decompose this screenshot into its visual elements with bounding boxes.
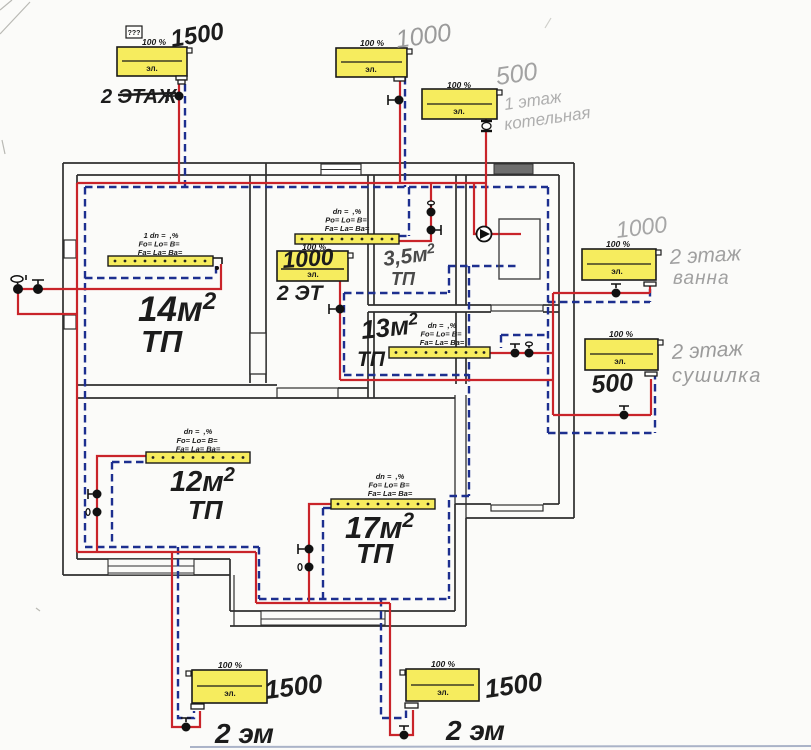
wall bottom-right-section inner segment right [543, 503, 559, 505]
door threshold H1 [491, 305, 543, 311]
wire supply radiator R6 drop [172, 552, 200, 727]
valve on B8 drop [329, 304, 345, 314]
outer wall right inner line [558, 175, 560, 504]
wire return boiler branch [448, 265, 520, 267]
valves on M2 riser [427, 201, 442, 235]
svg-text:dn = ,%: dn = ,% [184, 427, 213, 436]
step wall left-bottom [229, 559, 231, 611]
wire supply bottom-left horizontal [77, 551, 256, 553]
svg-text:ТП: ТП [357, 348, 386, 371]
svg-text:500: 500 [494, 57, 539, 91]
interior wall V1 line a [249, 175, 251, 383]
interior wall H1 line b [368, 311, 491, 313]
wire return main horizontal [85, 186, 548, 188]
wire zone drop to 13m [343, 293, 345, 375]
outer wall left outer line [62, 163, 64, 575]
wire return left drop [84, 187, 86, 547]
svg-text:ТП: ТП [391, 269, 416, 289]
boiler [499, 219, 540, 279]
window left wall upper [64, 240, 76, 258]
window left wall lower [64, 315, 76, 329]
svg-text:100 %: 100 % [142, 37, 167, 47]
svg-text:сушилка: сушилка [672, 365, 762, 387]
wire return drop x259 [258, 547, 260, 599]
svg-text:ТП: ТП [356, 538, 394, 569]
step wall right outer [465, 518, 467, 626]
interior wall H2 line a [78, 384, 277, 386]
wire return manifold M4 horizontal [112, 461, 146, 463]
wire supply manifold M2 riser [399, 183, 431, 241]
wire supply vanna branch [553, 292, 650, 294]
wire supply box B8 drop [339, 280, 341, 380]
wire return jog [449, 496, 469, 599]
outer wall bottom-left inner line [77, 558, 230, 560]
radiator R3 kotelnaya [422, 89, 502, 131]
interior wall H1 line a [368, 304, 491, 306]
manifold M3 text [420, 321, 465, 347]
svg-text:2 ЭТ: 2 ЭТ [276, 282, 325, 305]
walls [63, 163, 574, 626]
wire supply main y380 [340, 379, 553, 381]
outer wall bottom-mid inner [230, 610, 455, 612]
valve on vanna branch [611, 284, 621, 298]
wire supply radiator R1 drop [178, 84, 180, 183]
radiator R7 bottom-mid [400, 669, 479, 708]
manifold M3 13m [389, 347, 490, 358]
wire zone 17m bottom [259, 598, 449, 600]
window bottom-left wall [108, 559, 194, 575]
interior wall V2 line a [367, 175, 369, 305]
radiator R6 bottom-left [186, 670, 267, 709]
pump [477, 227, 492, 242]
svg-text:1000: 1000 [282, 243, 335, 273]
svg-text:эл.: эл. [614, 357, 626, 366]
wire supply manifold M4 riser [97, 456, 146, 553]
interior wall V3 line b [465, 175, 467, 305]
wire return manifold M2 stub [399, 235, 409, 237]
manifold M5 text [368, 472, 413, 498]
red pipes [18, 77, 651, 735]
door opening V1 [250, 333, 266, 374]
outer wall top inner line [77, 174, 559, 176]
radiator R1 [117, 47, 192, 84]
wire return radiator R1 drop [184, 84, 186, 187]
svg-text:100 %: 100 % [447, 80, 472, 90]
wire return manifold M1 riser [215, 266, 217, 278]
valve on R1 riser [168, 91, 184, 101]
printed 100% labels [142, 37, 634, 670]
svg-text:2 эм: 2 эм [445, 715, 505, 746]
tick top wall chimney [265, 163, 267, 175]
wire return manifold M4 drop [111, 462, 113, 547]
radiator R4 vanna [582, 249, 661, 286]
wire supply radiator R2 drop [399, 77, 401, 183]
interior wall V3 lower line b [465, 312, 467, 384]
wire supply valve bump left [18, 288, 77, 290]
interior wall V3 line a [455, 175, 457, 305]
manifold M4 text [176, 427, 221, 454]
svg-text:эл.: эл. [146, 64, 158, 73]
wire supply right riser [552, 293, 554, 415]
wire supply manifold M5 riser [309, 504, 331, 603]
outer wall bottom-mid outer [230, 625, 466, 627]
svg-text:Fa= La= Ba=: Fa= La= Ba= [176, 445, 221, 454]
wire supply pump feed drop [474, 183, 477, 234]
svg-text:эл.: эл. [437, 688, 449, 697]
wire supply sushilka branch [553, 414, 651, 416]
valves left bump [11, 275, 44, 294]
svg-text:эл.: эл. [365, 65, 377, 74]
wire return manifold M2 drop [408, 187, 410, 236]
svg-text:???: ??? [128, 30, 141, 37]
manifold M4 12m [146, 452, 250, 463]
window top wall [321, 164, 361, 175]
outer wall bottom-left outer line [63, 574, 230, 576]
interior wall V3 lower line a [455, 312, 457, 384]
interior wall V2 line b [373, 175, 375, 305]
interior wall V2 lower [367, 312, 369, 398]
H2 segment right of bump [338, 387, 368, 389]
svg-text:500: 500 [590, 368, 634, 399]
electric box B8 1000 [277, 251, 353, 281]
wall bottom-right-section inner segment left [455, 503, 491, 505]
svg-text:100 %: 100 % [218, 660, 243, 670]
svg-text:эл.: эл. [611, 267, 623, 276]
svg-text:2 ЭТАЖ: 2 ЭТАЖ [100, 86, 178, 108]
valves on M3 link [510, 342, 534, 358]
manifold M1 text [138, 231, 183, 257]
step wall right inner [454, 504, 456, 611]
svg-text:эл.: эл. [453, 107, 465, 116]
manifold M5 17m [331, 499, 435, 509]
wire return radiator R2 drop [404, 77, 406, 187]
svg-text:Fa= La= Ba=: Fa= La= Ba= [368, 489, 413, 498]
svg-text:100 %: 100 % [431, 659, 456, 669]
handwritten ink labels [100, 18, 634, 749]
svg-text:Fa= La= Ba=: Fa= La= Ba= [420, 338, 465, 347]
wire supply left drop [76, 183, 78, 552]
wire supply main horizontal [77, 182, 486, 184]
wire return sushilka bottom [548, 432, 655, 434]
wire return radiator R6 drop [178, 547, 194, 718]
wire supply manifold M1 feed [77, 264, 221, 289]
chimney block top wall [494, 164, 533, 174]
manifold M1 14m [108, 256, 222, 270]
wall bottom-right-section outer [466, 517, 574, 519]
valves on M4 riser [86, 489, 102, 517]
outer wall left inner line [76, 175, 78, 559]
valve on sushilka branch [619, 406, 629, 420]
outer wall right outer line [573, 163, 575, 518]
svg-text:Fa= La= Ba=: Fa= La= Ba= [325, 224, 370, 233]
manifold M2 text [325, 207, 370, 233]
svg-text:100 %: 100 % [609, 329, 634, 339]
wire return manifold M5 stub [323, 507, 331, 509]
valve on R2 riser [388, 95, 404, 105]
radiator R5 sushilka [585, 339, 663, 376]
valve on R6 bottom [181, 718, 191, 732]
wire zone 3.5m dashed right leg [448, 266, 450, 293]
thermostat box ??? [126, 26, 142, 38]
wire return bottom-left horizontal [85, 546, 259, 548]
svg-text:эл.: эл. [224, 689, 236, 698]
wire return vanna branch [548, 301, 650, 303]
blue pipes [85, 77, 655, 718]
wire supply manifold M3 link [489, 352, 553, 354]
svg-text:ТП: ТП [141, 324, 183, 359]
svg-text:ванна: ванна [673, 268, 730, 289]
outer wall top outer line [63, 162, 574, 164]
svg-text:Fa= La= Ba=: Fa= La= Ba= [138, 248, 183, 257]
pencil grey labels [394, 18, 762, 387]
wire return manifold M1 horizontal [85, 277, 216, 279]
wire supply drop x256 [255, 552, 257, 603]
wire zone 3.5m dashed bottom [344, 292, 447, 294]
window bottom-mid wall [261, 611, 385, 626]
wire zone 17m left riser [322, 508, 324, 599]
interior wall below 13m room [454, 395, 456, 504]
wire supply bottom horizontal y603 [256, 602, 390, 604]
wire supply kotelnaya riser [485, 119, 487, 228]
interior wall H2 line b [78, 397, 455, 399]
wire return right drop x469 [468, 266, 470, 496]
manifold M2 middle [295, 234, 399, 244]
interior wall V1 line b [265, 175, 267, 383]
svg-text:эл.: эл. [307, 270, 319, 279]
valve on R7 bottom [399, 726, 409, 740]
valves on M5 riser [298, 544, 314, 572]
H2 bump [277, 388, 338, 398]
svg-text:2 этаж: 2 этаж [668, 242, 743, 269]
wire supply radiator R7 drop [390, 603, 413, 735]
svg-text:2 этаж: 2 этаж [670, 337, 745, 364]
door threshold bottom-right-section [491, 505, 543, 511]
wire return radiator R7 drop [381, 599, 406, 718]
wire return manifold M3 riser [500, 335, 502, 348]
wire return crossing to right y375 [344, 374, 469, 376]
wire return right main drop x548 [547, 187, 549, 433]
svg-text:2 эм: 2 эм [214, 718, 274, 749]
svg-text:ТП: ТП [188, 495, 224, 525]
svg-text:100 %: 100 % [360, 38, 385, 48]
wire pump outlet [491, 233, 521, 235]
radiator R2 [336, 48, 412, 81]
